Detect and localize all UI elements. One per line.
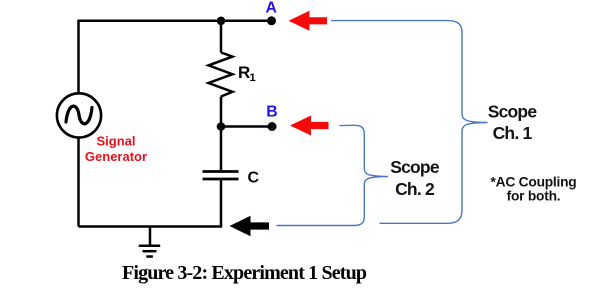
svg-text:1: 1 bbox=[250, 72, 256, 84]
svg-text:Ch. 2: Ch. 2 bbox=[395, 179, 435, 199]
svg-text:Ch. 1: Ch. 1 bbox=[493, 123, 533, 143]
svg-text:Scope: Scope bbox=[390, 157, 440, 177]
svg-text:*AC Coupling: *AC Coupling bbox=[491, 175, 577, 190]
svg-text:A: A bbox=[265, 0, 276, 17]
svg-text:Generator: Generator bbox=[85, 149, 147, 164]
svg-text:for both.: for both. bbox=[507, 189, 561, 204]
svg-text:Signal: Signal bbox=[96, 134, 135, 149]
svg-text:R: R bbox=[238, 63, 250, 82]
svg-text:Scope: Scope bbox=[488, 102, 538, 122]
svg-text:B: B bbox=[266, 104, 277, 121]
svg-text:C: C bbox=[248, 169, 260, 186]
svg-text:Figure 3-2: Experiment 1 Setup: Figure 3-2: Experiment 1 Setup bbox=[122, 262, 367, 284]
